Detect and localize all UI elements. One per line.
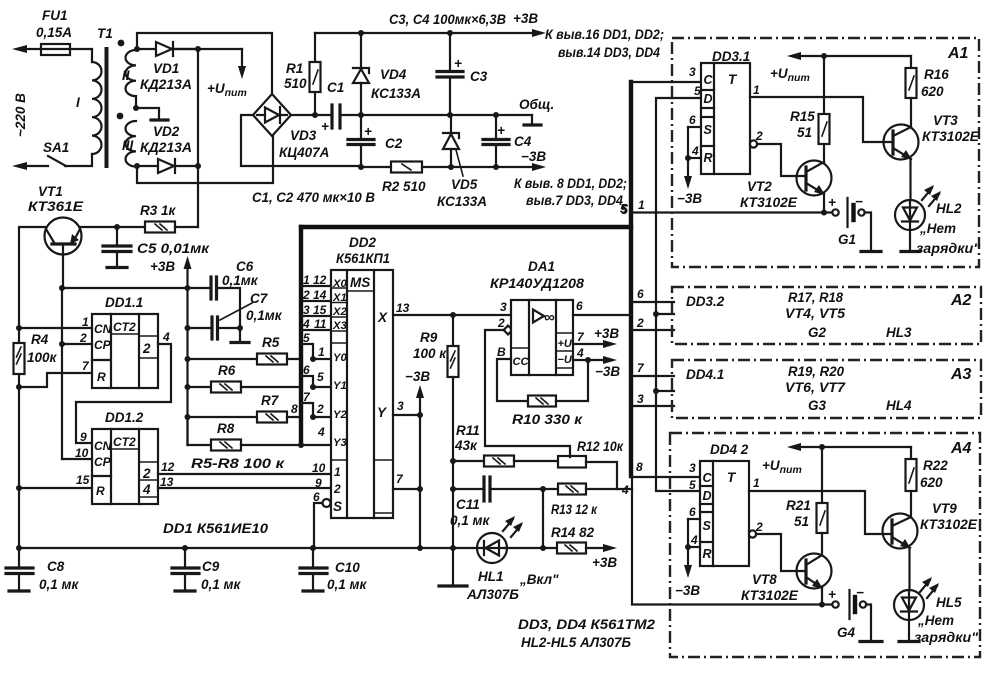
node R5 row xyxy=(185,356,191,362)
wire R8 row xyxy=(188,417,212,445)
node bottom diode out xyxy=(195,163,201,169)
node pin15 xyxy=(16,485,22,491)
svg-text:2: 2 xyxy=(316,402,324,416)
wire VT1 right to R3 xyxy=(80,226,145,228)
IC DD1.1 box xyxy=(92,314,158,388)
resistor R21 xyxy=(821,447,823,503)
output pin6 wire xyxy=(573,314,631,316)
ground G4 xyxy=(860,640,882,643)
LED HL1 xyxy=(477,533,507,563)
svg-text:зарядки": зарядки" xyxy=(914,630,979,645)
node C11 row xyxy=(450,486,456,492)
svg-text:R6: R6 xyxy=(218,363,236,378)
svg-text:A4: A4 xyxy=(950,440,972,457)
svg-text:КД213А: КД213А xyxy=(140,77,192,92)
wire bus X3 xyxy=(301,329,331,331)
node pin7 xyxy=(417,486,423,492)
svg-text:I: I xyxy=(76,95,80,110)
node Y out xyxy=(417,412,423,418)
svg-text:КТ3102Е: КТ3102Е xyxy=(740,195,798,210)
diode VD2 cathode bar xyxy=(151,118,168,121)
svg-text:DA1: DA1 xyxy=(528,259,555,274)
node -U xyxy=(585,357,591,363)
capacitor C10 xyxy=(312,548,314,567)
svg-text:4: 4 xyxy=(690,533,698,547)
node C5 top xyxy=(114,224,120,230)
svg-text:C8: C8 xyxy=(47,559,65,574)
op-amp feedback wire xyxy=(504,326,513,335)
resistor R12 xyxy=(558,456,586,468)
svg-text:4: 4 xyxy=(317,425,325,439)
node R4 top xyxy=(16,325,22,331)
resistor R14 xyxy=(557,543,586,554)
svg-text:R16: R16 xyxy=(924,67,949,82)
svg-text:DD1.1: DD1.1 xyxy=(105,295,143,310)
svg-text:Y3: Y3 xyxy=(333,437,348,449)
SECTION: wiring bus xyxy=(291,82,631,476)
svg-text:+3В: +3В xyxy=(592,555,617,570)
svg-text:A3: A3 xyxy=(950,366,972,383)
node R4 bottom xyxy=(16,384,22,390)
svg-text:510: 510 xyxy=(284,76,307,91)
svg-text:2: 2 xyxy=(142,341,151,356)
bridge rectifier VD3 xyxy=(253,94,291,136)
svg-text:51: 51 xyxy=(797,125,812,140)
X output wire xyxy=(393,314,511,316)
svg-text:14: 14 xyxy=(313,288,327,302)
svg-text:−U: −U xyxy=(558,354,573,366)
svg-text:A2: A2 xyxy=(950,292,972,309)
svg-text:Общ.: Общ. xyxy=(519,97,554,112)
svg-text:C9: C9 xyxy=(202,559,220,574)
svg-text:HL2-HL5 АЛ307Б: HL2-HL5 АЛ307Б xyxy=(521,635,631,650)
node R1 bottom xyxy=(312,112,318,118)
output 2 circle A4 xyxy=(749,530,756,537)
wire VT1 base vertical xyxy=(61,288,63,459)
svg-text:−3В: −3В xyxy=(405,369,430,384)
step wire 6 to Y1 xyxy=(301,376,331,387)
block A3 border xyxy=(672,360,981,418)
ground HL2 xyxy=(901,250,919,253)
node VD1 out xyxy=(195,46,201,52)
wire 1 battery return A1 xyxy=(631,211,832,213)
svg-text:4: 4 xyxy=(302,317,310,331)
svg-text:1: 1 xyxy=(82,315,89,329)
SECTION: R9 R11-R14 C11 HL1 xyxy=(413,315,632,602)
node C7 left xyxy=(185,325,191,331)
S-R vertical with -3V arrow A4 xyxy=(687,519,689,570)
svg-text:VD5: VD5 xyxy=(451,177,478,192)
svg-text:R9: R9 xyxy=(420,330,438,345)
output 2 wire A4 xyxy=(756,534,806,571)
svg-text:VD1: VD1 xyxy=(153,61,179,76)
wire bus X1 xyxy=(301,300,331,302)
svg-text:HL5: HL5 xyxy=(936,595,962,610)
svg-text:620: 620 xyxy=(921,84,944,99)
svg-text:2: 2 xyxy=(636,316,644,330)
fuse FU1 xyxy=(41,44,70,55)
svg-text:∞: ∞ xyxy=(544,309,555,326)
svg-text:0,1мк: 0,1мк xyxy=(246,308,283,323)
node R6 row xyxy=(185,384,191,390)
wire R6 row xyxy=(188,386,212,388)
svg-text:R4: R4 xyxy=(31,332,49,347)
svg-text:12: 12 xyxy=(313,273,327,287)
S pin wire A1 xyxy=(688,126,701,128)
svg-text:−: − xyxy=(856,585,864,600)
svg-text:2: 2 xyxy=(755,129,763,143)
wire 7 to A3 xyxy=(631,375,674,377)
svg-text:АЛ307Б: АЛ307Б xyxy=(466,587,519,602)
svg-text:C1: C1 xyxy=(327,80,344,95)
svg-text:выв.14 DD3, DD4: выв.14 DD3, DD4 xyxy=(558,45,660,60)
wire HL1 to R14 xyxy=(505,547,557,549)
node Y0 xyxy=(310,356,316,362)
node C10 xyxy=(310,545,316,551)
svg-text:DD4 2: DD4 2 xyxy=(710,442,749,457)
callout C7 xyxy=(220,303,252,320)
svg-text:S: S xyxy=(704,123,713,137)
S inversion circle xyxy=(323,499,331,507)
block A4 border xyxy=(670,433,980,657)
-3V arrow at Y xyxy=(419,393,421,415)
svg-text:C3: C3 xyxy=(470,69,488,84)
HL5 emission arrows xyxy=(920,580,930,592)
node R pin A1 xyxy=(685,155,691,161)
svg-text:КТ361Е: КТ361Е xyxy=(28,199,84,214)
svg-text:+: + xyxy=(497,123,505,138)
svg-text:+: + xyxy=(321,119,329,134)
svg-text:1: 1 xyxy=(303,273,310,287)
output 2 wire A1 xyxy=(757,144,806,176)
svg-text:C10: C10 xyxy=(335,560,360,575)
svg-text:2: 2 xyxy=(497,316,505,330)
block A2 border xyxy=(672,287,981,344)
svg-text:R21: R21 xyxy=(786,498,811,513)
svg-text:DD3.1: DD3.1 xyxy=(712,49,750,64)
node D line A2 xyxy=(653,311,659,317)
node VD4 top xyxy=(358,30,364,36)
+3V supply vertical xyxy=(186,288,188,445)
transistor VT3 xyxy=(884,125,919,160)
DD1.1 output 4 wire xyxy=(76,344,171,443)
svg-text:+3В: +3В xyxy=(594,326,619,341)
triangle infinity symbol xyxy=(533,310,544,323)
node pin2 xyxy=(59,341,65,347)
resistor R15 xyxy=(823,56,825,114)
svg-text:T1: T1 xyxy=(97,26,113,41)
capacitor C9 xyxy=(184,548,186,567)
svg-text:DD3.2: DD3.2 xyxy=(686,294,725,309)
step wire 5 to Y0 xyxy=(301,344,331,359)
wire winding III to bridge bottom xyxy=(137,136,273,183)
node R7 row xyxy=(185,414,191,420)
S pin wire A4 xyxy=(688,518,700,520)
svg-text:+: + xyxy=(454,56,462,71)
capacitor C1 xyxy=(330,105,333,128)
svg-text:X2: X2 xyxy=(332,306,348,318)
svg-text:1: 1 xyxy=(753,476,760,490)
SECTION: block A4 xyxy=(670,433,980,657)
D line wire 5 xyxy=(656,98,701,491)
wire 6 to A2 xyxy=(631,301,674,303)
wire Y down xyxy=(419,415,421,548)
SECTION: DD2 multiplexer xyxy=(313,235,511,551)
svg-text:R10 330 к: R10 330 к xyxy=(512,412,583,427)
step wire 7 to Y2 xyxy=(301,403,331,417)
wire fuse to transformer xyxy=(70,49,92,62)
svg-text:R11: R11 xyxy=(456,423,480,438)
wire top rail to bridge xyxy=(137,33,272,94)
svg-text:10: 10 xyxy=(75,446,89,460)
svg-text:S: S xyxy=(703,519,712,533)
svg-text:100к: 100к xyxy=(27,350,58,365)
svg-text:Y0: Y0 xyxy=(333,352,348,364)
svg-text:C: C xyxy=(704,73,714,87)
Obshch common symbol xyxy=(531,115,533,124)
wire D to A3 xyxy=(656,390,674,392)
svg-text:R: R xyxy=(704,151,713,165)
svg-text:−3В: −3В xyxy=(595,364,620,379)
svg-text:R12 10к: R12 10к xyxy=(577,439,624,454)
-U pin4 wire arrow xyxy=(573,359,610,361)
winding II xyxy=(126,50,137,96)
svg-text:C5 0,01мк: C5 0,01мк xyxy=(137,241,210,256)
SECTION: power supply top-left xyxy=(12,8,664,227)
svg-text:КС133А: КС133А xyxy=(437,194,487,209)
svg-text:2: 2 xyxy=(333,482,341,496)
wire down to R3 xyxy=(197,166,199,227)
wire 8 to A4 xyxy=(631,476,701,478)
ground G1 xyxy=(861,250,881,253)
node Y rail xyxy=(417,545,423,551)
S-R vertical with -3V arrow xyxy=(687,127,689,181)
svg-text:R5: R5 xyxy=(262,335,280,350)
svg-text:VD3: VD3 xyxy=(290,128,317,143)
svg-text:CN: CN xyxy=(94,439,112,453)
node C3 bottom xyxy=(447,112,453,118)
zener VD5 xyxy=(450,115,452,133)
svg-text:КС133А: КС133А xyxy=(371,86,421,101)
transistor VT8 xyxy=(797,554,832,589)
svg-text:10: 10 xyxy=(312,461,326,475)
svg-text:C6: C6 xyxy=(236,259,254,274)
svg-text:4: 4 xyxy=(576,346,584,360)
svg-text:C: C xyxy=(703,471,713,485)
resistor R4 xyxy=(14,343,25,374)
node R11 row xyxy=(450,458,456,464)
resistor R3 xyxy=(145,222,175,233)
node R9 top xyxy=(450,312,456,318)
svg-text:3: 3 xyxy=(500,300,507,314)
svg-text:„Нет: „Нет xyxy=(917,613,954,628)
svg-text:3: 3 xyxy=(303,303,310,317)
callout VD5 xyxy=(456,150,463,176)
wire 13 to DD2 xyxy=(158,487,331,489)
svg-text:+: + xyxy=(828,587,836,602)
svg-text:6: 6 xyxy=(689,113,696,127)
svg-text:43к: 43к xyxy=(454,438,478,453)
svg-text:DD3, DD4 К561ТМ2: DD3, DD4 К561ТМ2 xyxy=(518,617,656,632)
node VD4 bottom xyxy=(358,112,364,118)
node battery row VT8 xyxy=(819,602,825,608)
svg-text:X3: X3 xyxy=(332,320,348,332)
node winding III bottom xyxy=(134,163,140,169)
svg-text:−3В: −3В xyxy=(521,149,546,164)
node C9 xyxy=(182,545,188,551)
Y output wire xyxy=(393,414,420,416)
resistor R16 xyxy=(910,56,912,68)
wire winding III bottom row xyxy=(136,165,158,167)
IC DD1.2 box xyxy=(92,429,158,504)
svg-text:VT9: VT9 xyxy=(932,501,957,516)
node R21 top xyxy=(819,444,825,450)
SECTION: bottom notes xyxy=(518,617,656,650)
node battery row VT2 xyxy=(821,210,827,216)
resistor R5 xyxy=(257,354,287,365)
wire D to A2 xyxy=(656,313,674,315)
flip-flop DD4.2 box xyxy=(700,461,749,566)
wire R5 row xyxy=(188,358,258,360)
svg-text:+3В: +3В xyxy=(150,259,175,274)
svg-text:9: 9 xyxy=(315,476,322,490)
svg-text:R13 12 к: R13 12 к xyxy=(551,502,598,517)
svg-text:„Нет: „Нет xyxy=(919,221,956,236)
resistor R6 xyxy=(211,382,241,393)
svg-text:HL3: HL3 xyxy=(886,325,912,340)
svg-text:0,1 мк: 0,1 мк xyxy=(327,577,368,592)
svg-text:+: + xyxy=(828,195,836,210)
svg-text:1: 1 xyxy=(334,465,341,479)
resistor R7 xyxy=(257,412,287,423)
svg-text:CT2: CT2 xyxy=(113,435,136,449)
svg-text:0,1 мк: 0,1 мк xyxy=(201,577,242,592)
top +3V rail xyxy=(315,32,538,34)
svg-text:−3В: −3В xyxy=(677,191,702,206)
svg-text:R: R xyxy=(96,484,105,498)
svg-text:−3В: −3В xyxy=(675,583,700,598)
svg-text:R17, R18: R17, R18 xyxy=(788,290,843,305)
svg-text:6: 6 xyxy=(313,490,320,504)
phase dot winding III xyxy=(117,113,124,120)
ground R9 line xyxy=(439,584,467,587)
svg-text:VT4, VT5: VT4, VT5 xyxy=(785,306,846,321)
ground HL5 xyxy=(899,640,919,643)
svg-text:15: 15 xyxy=(313,303,327,317)
ground C5 xyxy=(107,266,127,269)
SECTION: VT1 R3 C5 xyxy=(19,184,283,548)
node C8 xyxy=(16,545,22,551)
svg-text:+U: +U xyxy=(558,338,573,350)
output 1 wire A4 xyxy=(749,491,891,534)
svg-text:0,1мк: 0,1мк xyxy=(222,273,259,288)
+3V arrow up xyxy=(186,264,188,288)
wire switch to primary xyxy=(65,154,92,166)
svg-text:12: 12 xyxy=(161,460,175,474)
svg-text:КР140УД1208: КР140УД1208 xyxy=(490,276,585,291)
capacitor C6 xyxy=(209,277,212,299)
svg-text:D: D xyxy=(703,489,712,503)
svg-text:0,1 мк: 0,1 мк xyxy=(39,577,80,592)
resistor R22 xyxy=(910,447,912,459)
svg-text:G4: G4 xyxy=(837,625,856,640)
HL2 emission arrows xyxy=(922,188,932,200)
SECTION: block A3 xyxy=(672,360,981,418)
svg-text:R1: R1 xyxy=(286,61,303,76)
bus left vertical bold xyxy=(299,227,303,445)
HL1 emission arrows xyxy=(503,519,513,531)
svg-text:R19, R20: R19, R20 xyxy=(788,364,844,379)
svg-text:DD1.2: DD1.2 xyxy=(105,410,144,425)
node Y2 xyxy=(310,414,316,420)
node HL1 row xyxy=(450,545,456,551)
svg-text:КТ3102Е: КТ3102Е xyxy=(741,588,799,603)
svg-text:К выв. 8 DD1, DD2;: К выв. 8 DD1, DD2; xyxy=(514,176,627,191)
svg-text:VT2: VT2 xyxy=(747,179,772,194)
svg-text:R5-R8 100 к: R5-R8 100 к xyxy=(191,456,285,471)
wire bus X0 xyxy=(301,285,331,287)
svg-text:51: 51 xyxy=(794,514,809,529)
battery G4 xyxy=(832,601,838,607)
svg-text:КТ3102Е: КТ3102Е xyxy=(920,517,978,532)
svg-text:зарядки": зарядки" xyxy=(916,241,981,256)
svg-text:DD2: DD2 xyxy=(349,235,376,250)
svg-text:0,15A: 0,15A xyxy=(36,25,72,40)
svg-text:6: 6 xyxy=(637,287,644,301)
svg-text:11: 11 xyxy=(314,317,327,331)
svg-text:6: 6 xyxy=(303,363,310,377)
svg-text:0,1 мк: 0,1 мк xyxy=(450,513,491,528)
node R14 junction xyxy=(540,545,546,551)
svg-text:4: 4 xyxy=(162,330,170,344)
svg-text:DD1 К561ИЕ10: DD1 К561ИЕ10 xyxy=(163,521,269,536)
op-amp DA1 box xyxy=(511,300,573,375)
svg-text:X1: X1 xyxy=(332,292,347,304)
node R pin A4 xyxy=(685,544,691,550)
svg-text:C7: C7 xyxy=(250,291,269,306)
winding I primary xyxy=(92,62,102,154)
svg-text:D: D xyxy=(704,92,713,106)
SECTION: block A1 xyxy=(672,38,981,267)
output 1 wire A1 xyxy=(750,97,891,142)
svg-text:4: 4 xyxy=(142,482,151,497)
svg-text:HL4: HL4 xyxy=(886,398,912,413)
svg-text:CT2: CT2 xyxy=(113,320,136,334)
svg-text:VT3: VT3 xyxy=(933,113,958,128)
svg-text:MS: MS xyxy=(350,275,370,290)
svg-text:+: + xyxy=(364,124,372,139)
flip-flop DD3.1 box xyxy=(701,63,750,174)
bus right vertical bold xyxy=(629,82,633,476)
node winding II top xyxy=(134,46,140,52)
pin 7 wire W out xyxy=(393,488,420,490)
svg-text:R14 82: R14 82 xyxy=(551,525,594,540)
svg-text:DD4.1: DD4.1 xyxy=(686,367,724,382)
resistor R11 xyxy=(484,456,514,467)
node C4 bottom xyxy=(493,164,499,170)
svg-text:2: 2 xyxy=(142,466,151,481)
R pin wire A1 xyxy=(688,157,701,159)
wire C11 junction down xyxy=(542,489,544,548)
svg-text:9: 9 xyxy=(80,430,87,444)
svg-text:КЦ407А: КЦ407А xyxy=(279,145,329,160)
pin 1 wire xyxy=(19,327,92,329)
wire R7 row xyxy=(188,416,258,418)
node R13 left xyxy=(540,486,546,492)
R pin wire A4 xyxy=(688,546,700,548)
svg-text:2: 2 xyxy=(79,331,87,345)
capacitor C4 xyxy=(495,115,497,138)
